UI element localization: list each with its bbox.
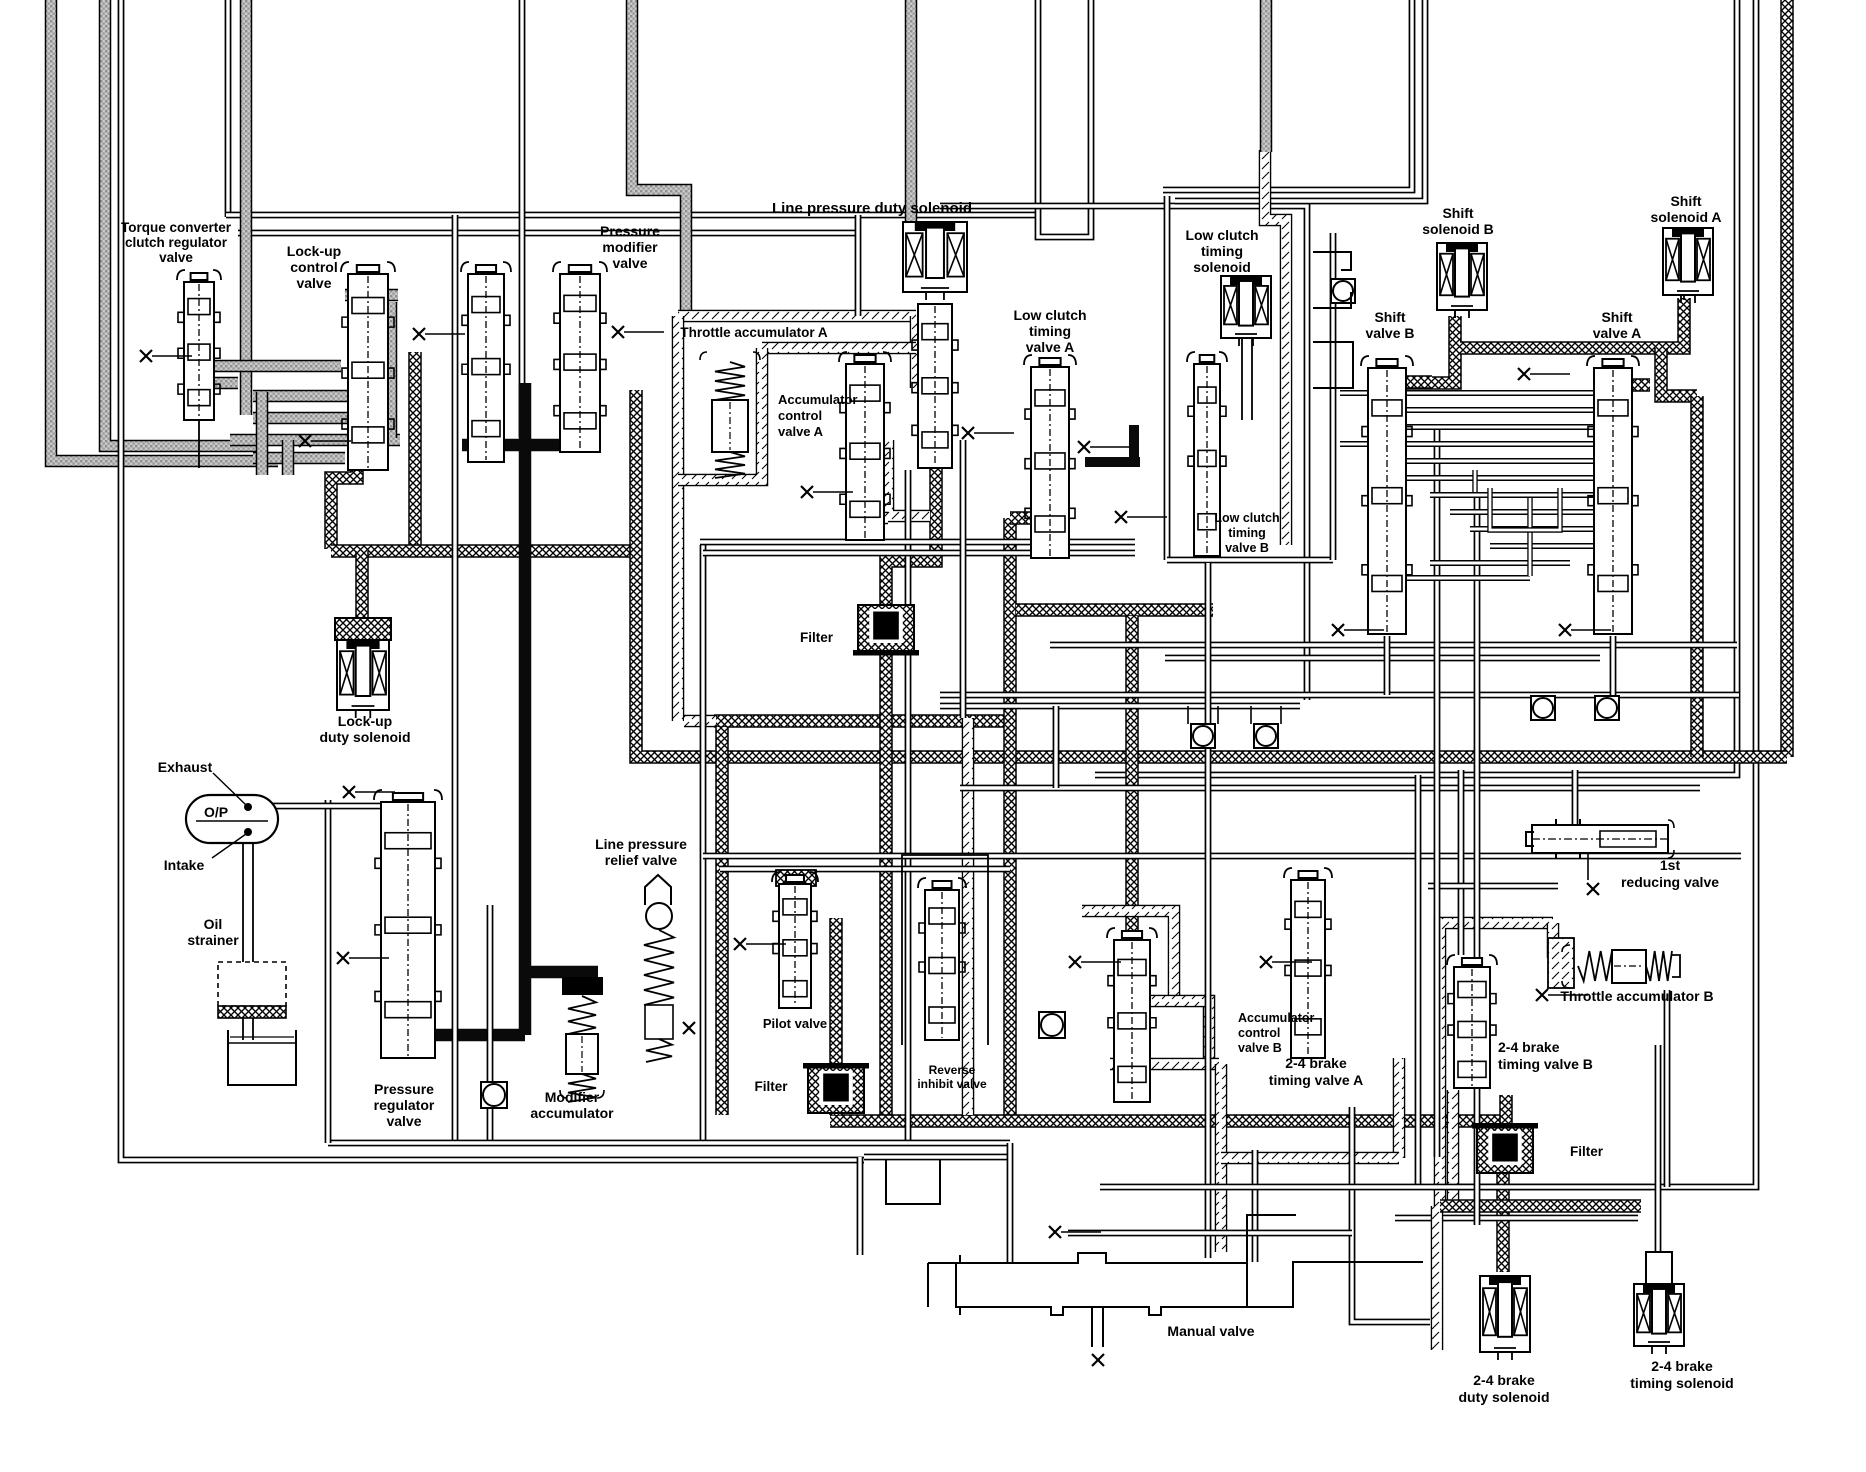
label throttle accumulator A bbox=[680, 325, 828, 340]
wire double U x1038-x1091 bbox=[1038, 0, 1091, 237]
svg-text:accumulator: accumulator bbox=[530, 1105, 614, 1121]
wire lighthatch duty drop bbox=[1431, 1206, 1444, 1350]
label shift valve A bbox=[1593, 309, 1642, 341]
oil strainer bbox=[218, 962, 296, 1085]
wire crosshatch y721 run bbox=[714, 714, 1010, 728]
svg-text:Line pressure: Line pressure bbox=[595, 836, 687, 852]
pump O/P bbox=[186, 773, 278, 858]
wire double y1157 ext bbox=[864, 1154, 1010, 1161]
valve pressure modifier bbox=[553, 262, 607, 452]
wire double y788 bbox=[960, 785, 1700, 792]
wire crosshatch right vertical x1697 bbox=[1690, 396, 1704, 757]
wire lighthatch stub y721 bbox=[684, 715, 716, 728]
accumulator line pressure relief bbox=[644, 875, 674, 1062]
svg-text:Filter: Filter bbox=[800, 630, 834, 645]
solenoid low clutch timing bbox=[1221, 276, 1271, 346]
wire black stub pm bbox=[575, 398, 588, 445]
svg-text:Low clutch: Low clutch bbox=[1013, 307, 1086, 323]
svg-text:Pilot valve: Pilot valve bbox=[763, 1016, 827, 1031]
label manual valve bbox=[1167, 1323, 1254, 1339]
label line pressure duty solenoid bbox=[772, 200, 972, 217]
wire double x1437 long bbox=[1434, 430, 1441, 1157]
wire crosshatch y610 run bbox=[1016, 603, 1213, 617]
valve piston unnamed bbox=[461, 262, 511, 462]
label O/P bbox=[204, 804, 228, 820]
wire lighthatch accB drop bbox=[1215, 1064, 1228, 1252]
wire lighthatch accB mid bbox=[1136, 1001, 1209, 1062]
svg-text:solenoid: solenoid bbox=[1193, 259, 1251, 275]
wire lighthatch accB bottom bbox=[1110, 1058, 1219, 1071]
wire crosshatch lockup drop east bbox=[408, 352, 422, 551]
valve pressure regulator bbox=[374, 790, 442, 1058]
svg-text:duty solenoid: duty solenoid bbox=[1459, 1389, 1550, 1405]
svg-text:Filter: Filter bbox=[1570, 1144, 1604, 1159]
label reverse inhibit valve bbox=[917, 1063, 987, 1091]
wire double y1218 bbox=[1395, 1215, 1638, 1222]
wire crosshatch bottom y1121 bbox=[830, 1114, 1506, 1128]
wire double x858 drop bbox=[855, 215, 862, 316]
label accumulator control valve B bbox=[1238, 1011, 1315, 1055]
svg-text:solenoid B: solenoid B bbox=[1422, 221, 1494, 237]
accumulator throttle B bbox=[1562, 945, 1680, 988]
svg-text:O/P: O/P bbox=[204, 804, 228, 820]
wire crosshatch shift solenoid B feed bbox=[1368, 316, 1455, 383]
exhaust port X low clutch B bbox=[1115, 511, 1167, 523]
filter 2 bbox=[803, 1063, 869, 1113]
wire crosshatch main y551 bbox=[331, 544, 641, 558]
valve manual bbox=[928, 1215, 1423, 1347]
label low clutch timing valve B bbox=[1214, 511, 1279, 555]
wire black main vertical x525 bbox=[519, 383, 532, 1035]
label lock-up control valve bbox=[287, 243, 341, 291]
exhaust port X lockup left low bbox=[299, 435, 351, 447]
wire crosshatch filter3 stem top bbox=[1499, 1095, 1513, 1130]
wire crosshatch x722 vertical bbox=[715, 727, 729, 1115]
wire double x1418 bbox=[1415, 775, 1422, 1187]
svg-text:Modifier: Modifier bbox=[545, 1089, 600, 1105]
svg-text:Intake: Intake bbox=[164, 857, 205, 873]
wire double y856 long bbox=[703, 853, 1741, 860]
wire double x1208 bbox=[1205, 563, 1212, 1258]
wire lighthatch throttleB stub bbox=[1547, 923, 1560, 958]
solenoid 2-4 brake timing neck bbox=[1646, 1252, 1672, 1284]
svg-text:Manual valve: Manual valve bbox=[1167, 1323, 1254, 1339]
wire lighthatch throttleA right bbox=[910, 316, 923, 388]
wire stipple tcc-lockup band 1 bbox=[253, 390, 348, 403]
wire lighthatch throttleA top bbox=[678, 310, 916, 323]
svg-text:regulator: regulator bbox=[374, 1097, 435, 1113]
wire black band y445 bbox=[462, 439, 594, 452]
port link 1 bbox=[1187, 706, 1189, 724]
wire double x1010 to manual valve bbox=[1007, 1143, 1014, 1262]
wire ladder line 4 bbox=[1406, 458, 1594, 464]
exhaust port X shift mid top bbox=[1518, 368, 1570, 380]
wire double run y206 to x1307 down bbox=[940, 206, 1307, 700]
wire double y695 long bbox=[940, 692, 1739, 699]
label low clutch timing solenoid bbox=[1185, 227, 1258, 275]
wire double y553 bbox=[703, 550, 1135, 557]
exhaust port X low clutch A bbox=[1078, 441, 1130, 453]
filter 1 bbox=[853, 605, 919, 656]
svg-text:valve B: valve B bbox=[1225, 541, 1269, 555]
wire ladder line 10 bbox=[1430, 560, 1570, 566]
label shift valve B bbox=[1365, 309, 1414, 341]
label intake bbox=[164, 857, 205, 873]
wire ladder line 2 bbox=[1406, 424, 1594, 430]
valve accumulator control A bbox=[839, 352, 891, 540]
port circle 1 bbox=[1191, 724, 1215, 748]
wire double y1233 run bbox=[1068, 1230, 1352, 1237]
wire crosshatch x1132 vertical bbox=[1125, 616, 1139, 1055]
wire double lowclutch box left bbox=[1164, 196, 1171, 560]
wire ladder vertical 2 bbox=[1527, 498, 1532, 576]
svg-text:inhibit valve: inhibit valve bbox=[917, 1077, 987, 1091]
valve lock-up control bbox=[341, 262, 395, 470]
wire black lowclutchA stub bbox=[1129, 425, 1139, 462]
svg-text:2-4 brake: 2-4 brake bbox=[1285, 1055, 1347, 1071]
svg-text:timing valve A: timing valve A bbox=[1269, 1072, 1363, 1088]
label filter 2 bbox=[754, 1079, 788, 1094]
wire double shiftB port drop bbox=[1384, 636, 1391, 695]
label lock-up duty solenoid bbox=[320, 713, 411, 745]
wire stipple tcc-lockup joint bbox=[256, 392, 269, 475]
wire double run y201 corner bbox=[1175, 0, 1425, 201]
label 2-4 brake timing valve A bbox=[1269, 1055, 1363, 1088]
exhaust port X tcc bbox=[140, 350, 192, 362]
wire lighthatch throttleA left bbox=[672, 316, 685, 721]
solenoid lock-up duty bbox=[335, 618, 391, 718]
label shift solenoid A bbox=[1650, 193, 1721, 225]
wire ladder line 3 bbox=[1340, 441, 1594, 447]
label 2-4 brake timing valve B bbox=[1498, 1039, 1593, 1072]
svg-text:2-4 brake: 2-4 brake bbox=[1498, 1039, 1560, 1055]
wire crosshatch shift valve A cap bbox=[1598, 378, 1650, 392]
svg-text:valve: valve bbox=[159, 250, 193, 265]
label oil strainer bbox=[187, 916, 239, 948]
valve manual stem x bbox=[1092, 1354, 1104, 1366]
exhaust port X lockup right bbox=[413, 328, 465, 340]
wire double y645 long bbox=[1050, 642, 1737, 649]
wire double x328 pump loop bbox=[325, 800, 332, 1143]
wire stipple x1266 top bbox=[1260, 0, 1273, 152]
valve shift B bbox=[1361, 356, 1413, 634]
svg-text:control: control bbox=[1238, 1026, 1280, 1040]
wire double x703 long bbox=[700, 545, 707, 1143]
wire ladder line 0 bbox=[1340, 390, 1594, 396]
wire double x1667 drop bbox=[1664, 990, 1671, 1187]
svg-text:control: control bbox=[778, 408, 822, 423]
svg-text:timing valve B: timing valve B bbox=[1498, 1056, 1593, 1072]
wire double x490 bbox=[487, 905, 494, 1143]
valve line pressure duty solenoid body bbox=[912, 304, 958, 468]
label 1st reducing valve bbox=[1621, 857, 1719, 890]
wire crosshatch acc-A corner bbox=[1010, 511, 1050, 525]
valve reverse inhibit box bbox=[902, 855, 988, 1045]
wire stipple tcc link y366 bbox=[205, 360, 341, 373]
svg-text:Lock-up: Lock-up bbox=[287, 243, 341, 259]
wire ladder line 6 bbox=[1430, 492, 1594, 498]
svg-text:Torque converter: Torque converter bbox=[121, 220, 232, 235]
svg-text:Throttle accumulator B: Throttle accumulator B bbox=[1560, 988, 1713, 1004]
svg-text:2-4 brake: 2-4 brake bbox=[1473, 1372, 1535, 1388]
valve 1st reducing exhaust x bbox=[1587, 883, 1599, 895]
wire stipple tcc-lockup joint 2 bbox=[282, 440, 295, 475]
pump intake drop bbox=[242, 843, 244, 1040]
wire crosshatch x636 vertical bbox=[636, 390, 1787, 757]
svg-text:valve A: valve A bbox=[778, 424, 824, 439]
svg-text:solenoid A: solenoid A bbox=[1650, 209, 1721, 225]
wire double run y233 bbox=[238, 230, 860, 237]
wire double x1056 stub bbox=[1053, 706, 1060, 788]
exhaust port X pressure regulator top bbox=[343, 786, 395, 798]
wire ladder line 8 bbox=[1470, 526, 1594, 532]
wire lighthatch accB top bbox=[1082, 911, 1174, 998]
wire frame right outer bbox=[1433, 0, 1756, 1187]
svg-text:timing: timing bbox=[1029, 323, 1071, 339]
port circle 3 bbox=[1531, 696, 1555, 720]
svg-text:Shift: Shift bbox=[1601, 309, 1632, 325]
svg-text:1st: 1st bbox=[1660, 857, 1681, 873]
valve torque converter clutch regulator bbox=[177, 270, 221, 420]
label low clutch timing valve A bbox=[1013, 307, 1086, 355]
wire lighthatch lowclutch feed bbox=[1265, 150, 1286, 545]
wire frame right inner bbox=[1095, 0, 1737, 775]
svg-text:Reverse: Reverse bbox=[929, 1063, 976, 1077]
wire double x860 drop bbox=[857, 1157, 864, 1255]
valve shift A bbox=[1587, 356, 1639, 634]
svg-text:timing: timing bbox=[1228, 526, 1266, 540]
wire ladder line 9 bbox=[1490, 543, 1594, 549]
wire double y706 bbox=[940, 703, 1300, 710]
wire stipple supply left inner bbox=[105, 0, 266, 446]
label modifier accumulator bbox=[530, 1089, 614, 1121]
wire ladder vertical 1 bbox=[1472, 470, 1477, 492]
wire double x455 long bbox=[452, 215, 459, 1143]
svg-text:timing: timing bbox=[1201, 243, 1243, 259]
check ball 1 bbox=[481, 1082, 507, 1108]
valve torque converter clutch regulator stem bbox=[198, 420, 200, 468]
svg-text:timing solenoid: timing solenoid bbox=[1630, 1375, 1733, 1391]
label pressure regulator valve bbox=[374, 1081, 435, 1129]
wire stipple lockup top band bbox=[345, 289, 398, 302]
svg-text:control: control bbox=[290, 259, 337, 275]
wire double x1575 reducing feed bbox=[1572, 770, 1579, 828]
wire black to modifier accumulator bbox=[525, 966, 598, 979]
wire lighthatch y1158 run bbox=[1221, 1152, 1399, 1165]
wire double run y215 bbox=[226, 212, 1040, 219]
wire double x963 drop bbox=[960, 440, 967, 718]
valve pilot cap bbox=[776, 870, 816, 886]
exhaust port X bottom center bbox=[1049, 1226, 1101, 1238]
wire double manual valve link bbox=[1352, 1107, 1430, 1322]
port link 2 bbox=[1250, 706, 1252, 724]
valve reverse inhibit bbox=[918, 878, 966, 1040]
wire stipple lockup right vertical bbox=[385, 302, 398, 438]
wire stipple supply left outer bbox=[51, 0, 278, 461]
solenoid shift A stem bbox=[1683, 295, 1685, 300]
wire crosshatch lockup drop west bbox=[331, 440, 357, 549]
exhaust port X 2-4 B bbox=[1536, 989, 1588, 1001]
wire stipple tcc-lockup band 2 bbox=[253, 412, 348, 425]
svg-text:valve B: valve B bbox=[1238, 1041, 1282, 1055]
wire crosshatch pilot right bbox=[829, 918, 843, 1115]
wire frame bump bbox=[886, 1160, 940, 1204]
wire frame left double vertical 2 bbox=[225, 0, 232, 217]
svg-text:strainer: strainer bbox=[187, 932, 239, 948]
wire black to pressure regulator bbox=[385, 1029, 525, 1042]
exhaust port X 2-4 A bbox=[1260, 956, 1312, 968]
solenoid shift B stem bbox=[1454, 310, 1456, 318]
wire double pump top bbox=[270, 803, 390, 810]
svg-text:Low clutch: Low clutch bbox=[1214, 511, 1279, 525]
wire crosshatch shift valve B cap right bbox=[1390, 375, 1432, 389]
svg-text:valve: valve bbox=[296, 275, 331, 291]
wire double vertical x522 bbox=[519, 0, 526, 437]
label shift solenoid B bbox=[1422, 205, 1494, 237]
wire double x1255 stub bbox=[1252, 1150, 1259, 1262]
wire stipple vertical x911 bbox=[905, 0, 918, 237]
wire crosshatch lockup duty feed bbox=[355, 551, 369, 620]
wire double lowclutch box right bbox=[1330, 233, 1337, 560]
label accumulator control valve A bbox=[778, 392, 857, 439]
exhaust port X acc B bbox=[1069, 956, 1121, 968]
exhaust port X pressure regulator side bbox=[337, 952, 389, 964]
wire crosshatch x1010 vertical bbox=[1003, 518, 1017, 1115]
wire double lowclutch box bottom bbox=[1167, 557, 1333, 564]
wire crosshatch shift solenoid A feed bbox=[1460, 298, 1684, 348]
wire crosshatch filter1 drop bbox=[879, 651, 893, 1115]
wire double y658 bbox=[1165, 655, 1600, 662]
port circle low clutch bbox=[1331, 279, 1355, 303]
svg-text:Shift: Shift bbox=[1442, 205, 1473, 221]
svg-text:clutch regulator: clutch regulator bbox=[125, 235, 228, 250]
wire ladder line 7 bbox=[1450, 509, 1594, 515]
wire double shiftA port drop bbox=[1610, 636, 1617, 695]
solenoid shift B bbox=[1437, 243, 1487, 318]
wire double y1187 run bbox=[1100, 1184, 1651, 1191]
accumulator line pressure relief x bbox=[683, 1022, 695, 1034]
wire crosshatch lpds drop bbox=[886, 305, 936, 605]
label exhaust bbox=[158, 759, 213, 775]
label filter 1 bbox=[800, 630, 834, 645]
svg-text:reducing valve: reducing valve bbox=[1621, 874, 1719, 890]
svg-text:Oil: Oil bbox=[204, 916, 223, 932]
wire lighthatch throttleA inner left bbox=[678, 348, 762, 480]
svg-text:Pressure: Pressure bbox=[600, 223, 660, 239]
wire crosshatch filter3 stem bottom bbox=[1496, 1168, 1510, 1272]
valve low clutch timing B bbox=[1187, 352, 1227, 556]
wire stipple tcc-lockup band 4 bbox=[253, 452, 345, 465]
valve pilot bbox=[772, 872, 818, 1008]
exhaust port X pilot bbox=[734, 938, 786, 950]
wire double x1461 reducing feed bbox=[1458, 770, 1465, 955]
svg-text:Low clutch: Low clutch bbox=[1185, 227, 1258, 243]
wire frame left double bbox=[121, 0, 864, 1160]
wire ladder line 11 bbox=[1406, 575, 1530, 581]
valve 2-4 brake timing A bbox=[1284, 868, 1332, 1058]
wire stipple vertical x246 bbox=[240, 0, 253, 415]
wire lighthatch throttleB left drop bbox=[1447, 1090, 1460, 1200]
wire crosshatch branch to right vertical bbox=[1661, 348, 1697, 396]
wire stipple vertical x632 bbox=[632, 0, 686, 316]
exhaust port X acc A left bbox=[801, 486, 853, 498]
wire double run y190 corner bbox=[1163, 0, 1412, 190]
wire ladder box bbox=[1490, 488, 1560, 530]
valve accumulator control B bbox=[1107, 928, 1157, 1102]
valve 2-4 brake timing B bbox=[1447, 955, 1497, 1088]
valve 1st reducing stem bbox=[1587, 853, 1589, 880]
wire lighthatch accA bottom bbox=[845, 512, 888, 525]
label line pressure relief valve bbox=[595, 836, 687, 868]
wire double y1143 long bbox=[328, 1140, 1010, 1147]
label pressure modifier valve bbox=[600, 223, 660, 271]
wire double y886 reducing bbox=[1428, 883, 1558, 890]
solenoid shift A bbox=[1663, 228, 1713, 303]
valve 1st reducing bbox=[1526, 819, 1674, 859]
accumulator throttle A bbox=[700, 352, 760, 478]
port shapes near x1310 bbox=[1313, 252, 1353, 388]
svg-text:Throttle accumulator A: Throttle accumulator A bbox=[680, 325, 828, 340]
svg-text:relief valve: relief valve bbox=[605, 852, 678, 868]
svg-text:Pressure: Pressure bbox=[374, 1081, 434, 1097]
svg-text:Filter: Filter bbox=[754, 1079, 788, 1094]
svg-text:Shift: Shift bbox=[1670, 193, 1701, 209]
svg-text:2-4 brake: 2-4 brake bbox=[1651, 1358, 1713, 1374]
svg-text:valve B: valve B bbox=[1365, 325, 1414, 341]
filter 3 bbox=[1472, 1123, 1538, 1173]
wire ladder line 1 bbox=[1406, 407, 1594, 413]
label pilot valve bbox=[763, 1016, 827, 1031]
wire crosshatch y1206 run bbox=[1440, 1199, 1641, 1213]
exhaust port X pressure modifier bbox=[612, 326, 664, 338]
wire lighthatch throttleA inner top bbox=[762, 342, 916, 355]
wire crosshatch right edge bbox=[1780, 0, 1794, 757]
label torque converter clutch regulator valve bbox=[121, 220, 232, 265]
wire lighthatch 24A side bbox=[1393, 1058, 1406, 1158]
solenoid line pressure duty bbox=[903, 222, 967, 300]
solenoid 2-4 brake timing bbox=[1634, 1284, 1684, 1354]
svg-text:modifier: modifier bbox=[602, 239, 658, 255]
svg-text:Accumulator: Accumulator bbox=[1238, 1011, 1315, 1025]
label throttle accumulator B bbox=[1560, 988, 1713, 1004]
wire black lowclutchA band bbox=[1085, 457, 1140, 467]
svg-text:Shift: Shift bbox=[1374, 309, 1405, 325]
svg-text:Accumulator: Accumulator bbox=[778, 392, 857, 407]
svg-text:Lock-up: Lock-up bbox=[338, 713, 392, 729]
accumulator modifier bbox=[560, 978, 604, 1102]
solenoid 2-4 brake duty bbox=[1480, 1276, 1530, 1360]
solenoid low clutch timing stem bbox=[1241, 338, 1243, 420]
wire double x908 long bbox=[905, 470, 912, 1143]
check ball 2 bbox=[1039, 1012, 1065, 1038]
accumulator throttle B hatch bbox=[1548, 938, 1574, 988]
wire lighthatch throttleB top bbox=[1440, 923, 1553, 1206]
exhaust port X shift B bottom bbox=[1332, 624, 1384, 636]
wire ladder line 5 bbox=[1406, 475, 1594, 481]
label 2-4 brake duty solenoid bbox=[1459, 1372, 1550, 1405]
svg-text:Exhaust: Exhaust bbox=[158, 759, 213, 775]
svg-text:valve: valve bbox=[612, 255, 647, 271]
svg-text:valve A: valve A bbox=[1026, 339, 1075, 355]
wire double timing solenoid stem bbox=[1655, 1045, 1662, 1253]
svg-text:valve A: valve A bbox=[1593, 325, 1642, 341]
wire lighthatch accA right bbox=[888, 440, 930, 516]
svg-text:valve: valve bbox=[386, 1113, 421, 1129]
label 2-4 brake timing solenoid bbox=[1630, 1358, 1733, 1391]
exhaust port X shift A bottom bbox=[1559, 624, 1611, 636]
wire double y869 bbox=[720, 866, 1010, 873]
wire stipple tcc-lockup band 3 bbox=[230, 434, 400, 447]
